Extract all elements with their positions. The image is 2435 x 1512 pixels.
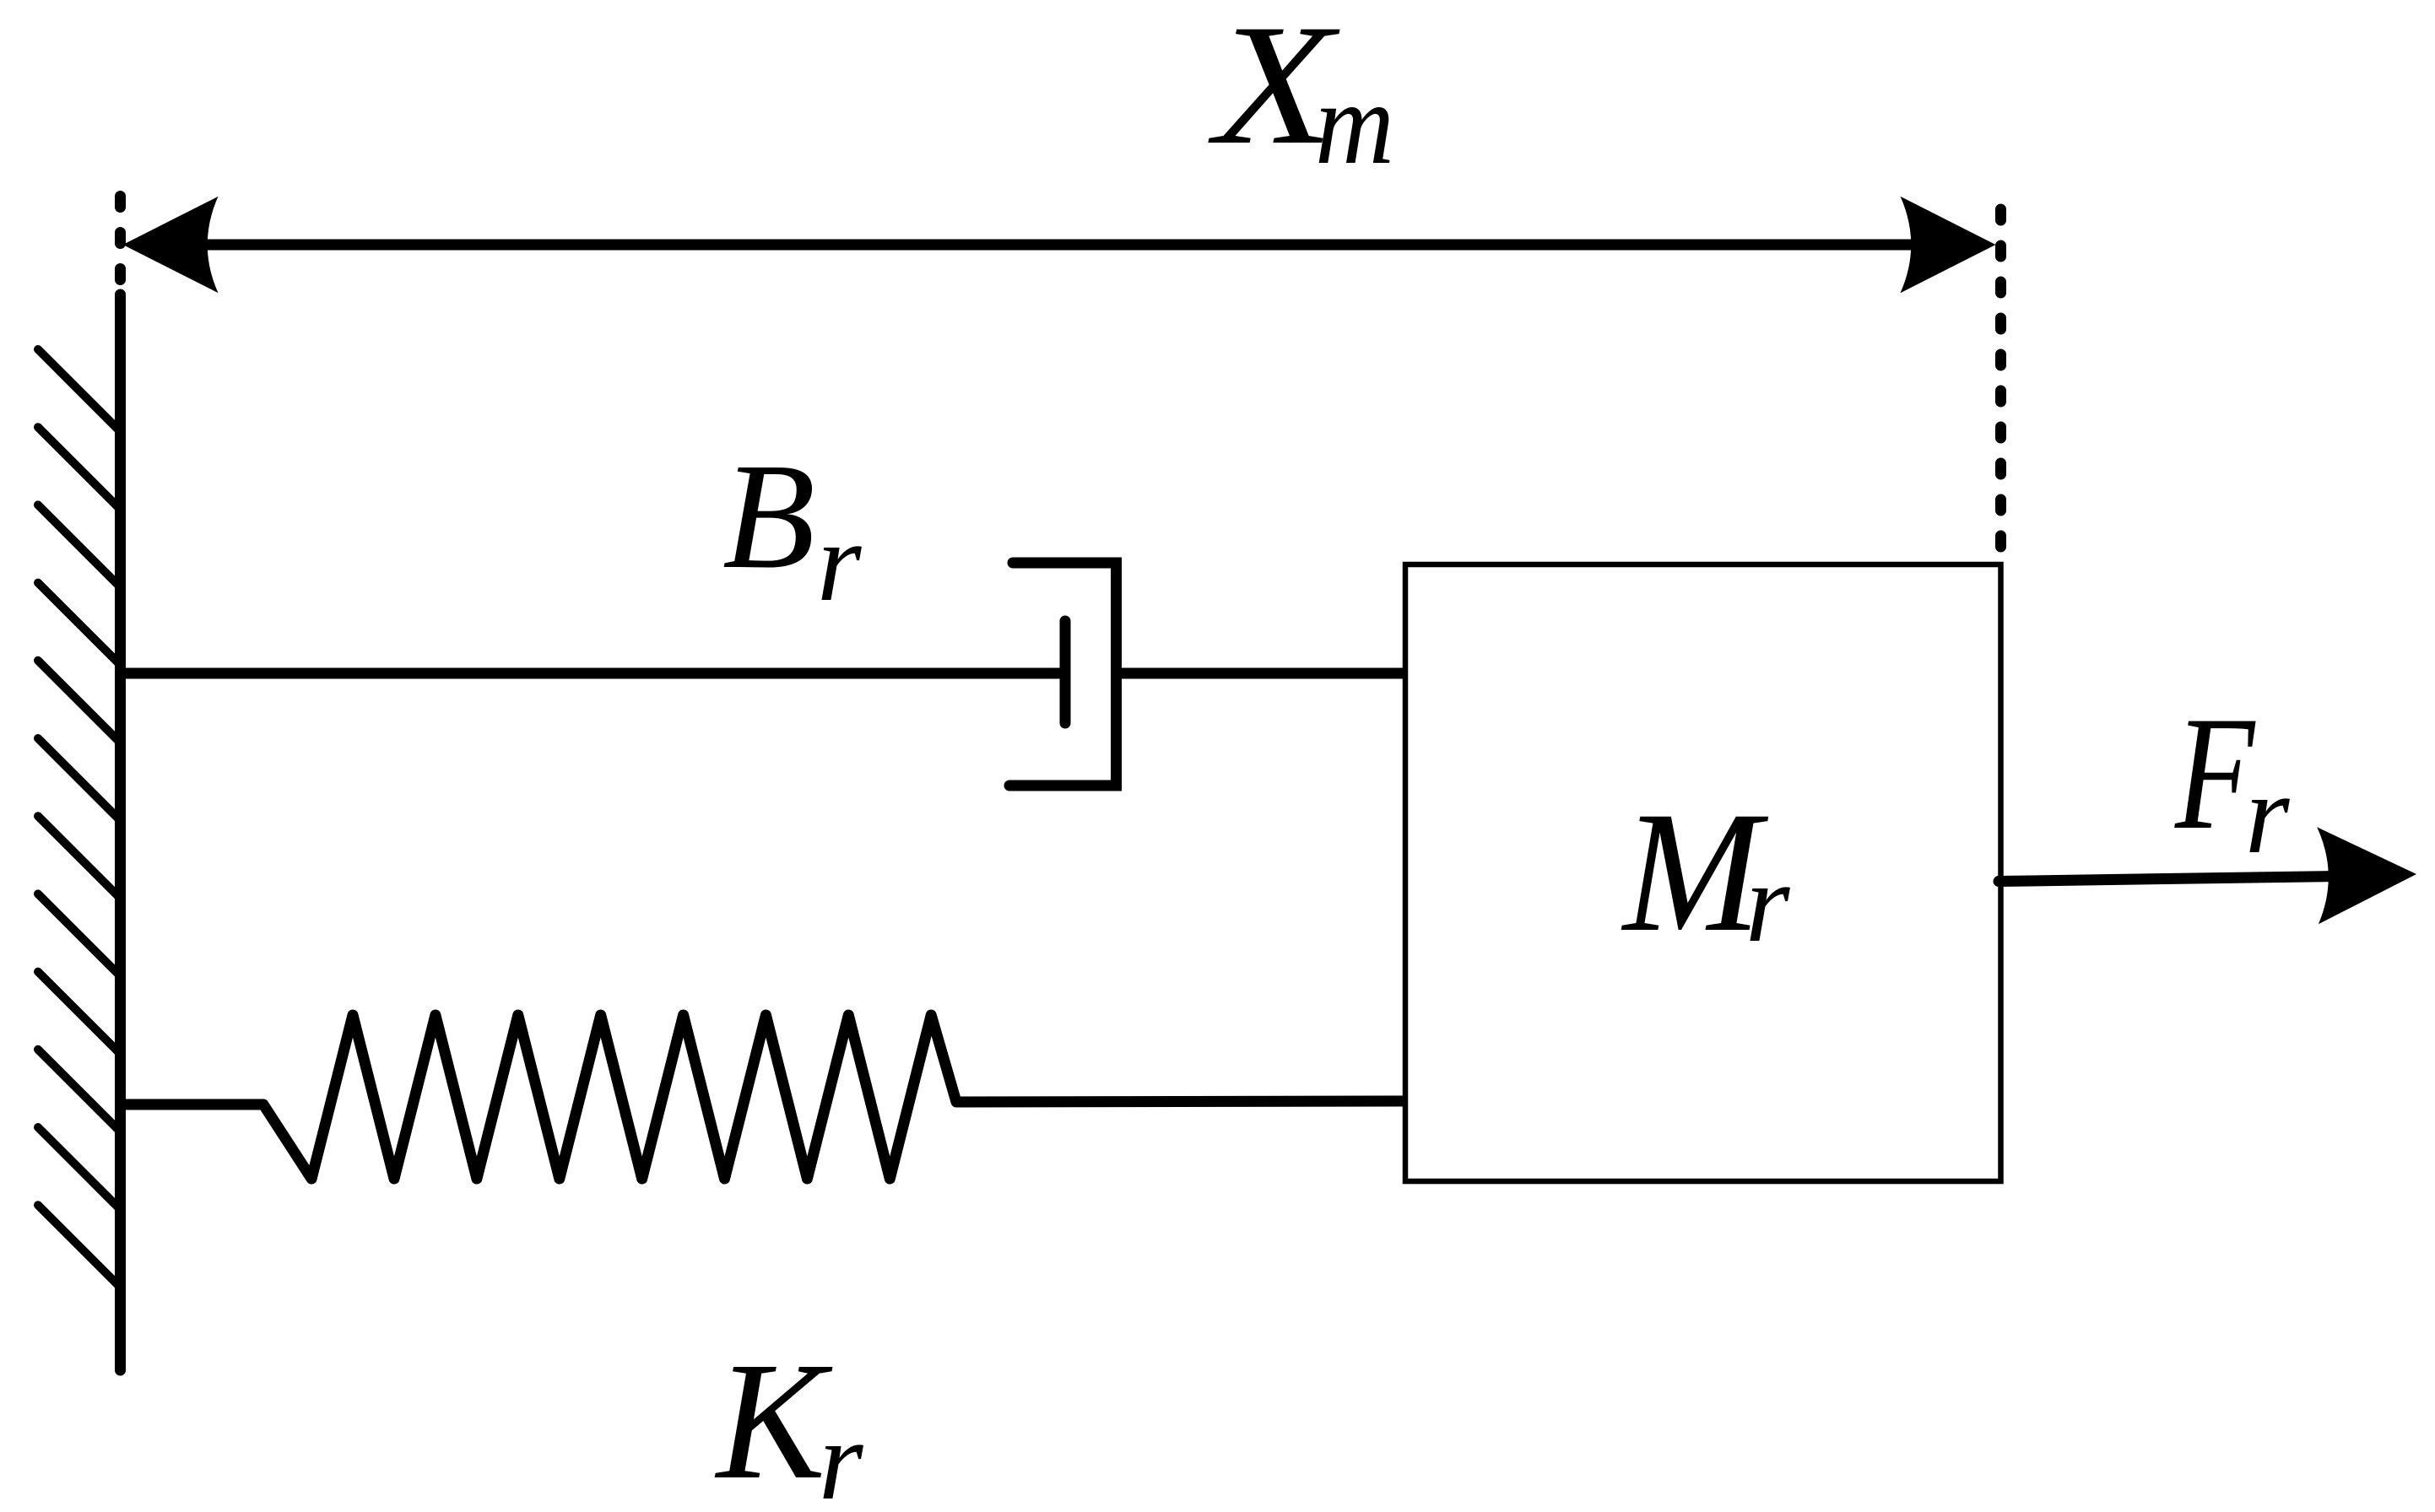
wall <box>115 294 126 1370</box>
damper Br piston plate <box>1060 621 1071 723</box>
force arrow Fr shaft <box>1999 877 2338 882</box>
svg-text:B: B <box>722 432 815 600</box>
left dashed extension line <box>115 197 126 292</box>
right dashed extension line <box>1995 209 2006 567</box>
svg-text:r: r <box>819 1398 863 1512</box>
svg-text:K: K <box>714 1327 833 1512</box>
spring Kr <box>126 1015 1406 1179</box>
label Fr <box>2174 683 2290 877</box>
label Xm <box>1208 0 1394 189</box>
svg-text:r: r <box>1745 840 1790 966</box>
damper Br cylinder <box>1009 563 1117 786</box>
damper Br rod left <box>122 668 1064 679</box>
svg-text:r: r <box>2245 752 2290 877</box>
svg-text:F: F <box>2174 683 2256 863</box>
force arrow Fr head <box>2317 826 2417 925</box>
dimension arrow left head <box>123 197 219 293</box>
wall hatching <box>38 349 122 1288</box>
dimension arrow Xm shaft <box>143 240 1979 251</box>
mass Mr box <box>1405 564 2001 1181</box>
dimension arrow right head <box>1901 197 1996 293</box>
label Mr <box>1621 776 1790 968</box>
damper Br rod right <box>1117 668 1407 679</box>
label Kr <box>714 1327 863 1512</box>
svg-text:r: r <box>817 499 862 625</box>
label Br <box>722 432 862 625</box>
svg-text:m: m <box>1315 59 1394 189</box>
